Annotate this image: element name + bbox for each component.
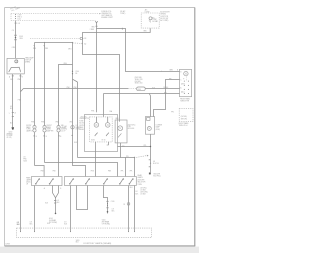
- svg-text:TURN: TURN: [26, 129, 30, 131]
- svg-text:B: B: [22, 76, 23, 78]
- svg-text:PNK: PNK: [45, 48, 48, 50]
- svg-text:PNK: PNK: [53, 171, 56, 173]
- svg-text:0.8: 0.8: [10, 106, 12, 108]
- svg-text:SEE DRL: SEE DRL: [181, 118, 188, 120]
- svg-text:(W/D): (W/D): [181, 83, 185, 85]
- svg-text:BLOCK: BLOCK: [79, 123, 84, 125]
- svg-text:P: P: [183, 78, 184, 80]
- svg-text:PNK: PNK: [74, 87, 77, 89]
- svg-text:BLK 750: BLK 750: [153, 163, 159, 165]
- svg-text:(W/ DRL): (W/ DRL): [140, 187, 147, 189]
- svg-text:PNK: PNK: [41, 171, 44, 173]
- svg-text:C6: C6: [12, 30, 14, 32]
- svg-text:FRONT: FRONT: [79, 125, 84, 127]
- svg-text:0.8 BLK: 0.8 BLK: [140, 194, 145, 196]
- svg-text:PPL: PPL: [169, 79, 172, 81]
- svg-text:BLK: BLK: [74, 142, 77, 144]
- svg-text:(W/ DRL): (W/ DRL): [135, 81, 142, 83]
- svg-text:86 85: 86 85: [91, 139, 95, 141]
- svg-text:S420: S420: [76, 240, 80, 242]
- svg-text:OF I/P): OF I/P): [7, 137, 12, 139]
- svg-text:TURN: TURN: [47, 129, 51, 131]
- svg-text:(SDN) RH: (SDN) RH: [138, 179, 145, 181]
- svg-text:OF TRUNK): OF TRUNK): [102, 224, 111, 226]
- svg-text:COMP: COMP: [152, 19, 157, 21]
- svg-text:0.8: 0.8: [64, 222, 66, 224]
- svg-text:PNK: PNK: [56, 121, 59, 123]
- svg-text:PNK: PNK: [18, 79, 21, 81]
- svg-text:BLK: BLK: [76, 242, 79, 244]
- svg-text:G200: G200: [9, 131, 13, 133]
- svg-text:C2: C2: [156, 21, 158, 23]
- svg-text:MODULE: MODULE: [128, 128, 134, 130]
- svg-text:(SDN): (SDN): [26, 182, 31, 184]
- svg-text:PPL: PPL: [130, 171, 133, 173]
- svg-text:12RW: 12RW: [5, 243, 10, 245]
- svg-text:(W/O DRL): (W/O DRL): [135, 77, 143, 79]
- svg-text:B: B: [177, 70, 178, 72]
- svg-text:CTSY: CTSY: [18, 14, 22, 16]
- svg-text:BLK: BLK: [152, 87, 155, 89]
- svg-text:S206: S206: [23, 160, 27, 162]
- svg-text:C100: C100: [75, 71, 79, 73]
- svg-text:BLK: BLK: [112, 211, 115, 213]
- svg-text:BLOCK (W/: BLOCK (W/: [160, 18, 168, 20]
- svg-text:TURN LP RH: TURN LP RH: [180, 100, 189, 102]
- svg-text:BLK: BLK: [17, 224, 20, 226]
- svg-text:C410: C410: [111, 201, 115, 203]
- svg-text:PNK: PNK: [91, 171, 94, 173]
- svg-text:0.8: 0.8: [30, 222, 32, 224]
- svg-text:BLK: BLK: [57, 202, 60, 204]
- svg-text:(W/ DRL): (W/ DRL): [81, 116, 88, 118]
- svg-text:B: B: [180, 72, 181, 74]
- svg-text:PNK: PNK: [31, 121, 34, 123]
- svg-text:0.8: 0.8: [153, 161, 155, 163]
- svg-text:SWITCH: SWITCH: [25, 59, 31, 61]
- svg-text:LICENSE: LICENSE: [156, 125, 162, 127]
- svg-text:18 BLK 150: 18 BLK 150: [135, 79, 143, 81]
- svg-text:1: 1: [9, 113, 10, 115]
- svg-text:BRN: BRN: [170, 70, 173, 72]
- svg-text:(W/ DRL): (W/ DRL): [181, 116, 188, 118]
- svg-text:G400: G400: [102, 220, 106, 222]
- svg-text:S108: S108: [19, 36, 23, 38]
- svg-text:COURTESY LAMPS (SEDAN): COURTESY LAMPS (SEDAN): [83, 242, 112, 245]
- svg-text:BLK: BLK: [45, 202, 48, 204]
- svg-text:87 30: 87 30: [102, 139, 106, 141]
- svg-text:0.8: 0.8: [57, 200, 59, 202]
- svg-text:BLK: BLK: [47, 223, 50, 225]
- svg-text:B: B: [60, 188, 61, 190]
- svg-text:B: B: [36, 136, 37, 138]
- svg-text:G104: G104: [49, 218, 53, 220]
- svg-text:0.8: 0.8: [112, 209, 114, 211]
- svg-text:FUSE: FUSE: [79, 120, 83, 122]
- svg-text:(W/O DRL): (W/O DRL): [128, 125, 136, 127]
- svg-text:DRL: DRL: [128, 126, 131, 128]
- svg-text:C4: C4: [123, 204, 125, 206]
- svg-text:LH: LH: [26, 184, 28, 186]
- svg-text:OF TRUNK): OF TRUNK): [49, 222, 58, 224]
- svg-text:PPL: PPL: [126, 156, 129, 158]
- svg-text:UNDERHOOD: UNDERHOOD: [79, 118, 90, 120]
- svg-text:0.8 BLK: 0.8 BLK: [140, 189, 145, 191]
- svg-text:B6: B6: [75, 73, 77, 75]
- svg-text:JUNCTION: JUNCTION: [160, 16, 168, 18]
- svg-text:DIODE: DIODE: [145, 11, 150, 13]
- svg-text:B: B: [60, 136, 61, 138]
- svg-text:COMP): COMP): [120, 13, 126, 15]
- svg-text:FSE 4: FSE 4: [18, 16, 22, 18]
- svg-text:PNK: PNK: [108, 171, 111, 173]
- svg-text:PNK: PNK: [23, 159, 26, 161]
- svg-text:KICK PNL): KICK PNL): [153, 176, 161, 178]
- svg-text:TURN: TURN: [138, 184, 142, 186]
- svg-text:BLK: BLK: [135, 193, 138, 195]
- svg-text:PPL: PPL: [144, 145, 147, 147]
- svg-text:0.8: 0.8: [23, 157, 25, 159]
- svg-text:0.8: 0.8: [17, 222, 19, 224]
- svg-text:TURN LP LH: TURN LP LH: [179, 125, 188, 127]
- svg-text:BLK: BLK: [164, 92, 167, 94]
- svg-text:0.8: 0.8: [135, 191, 137, 193]
- svg-text:UNDERHOOD,: UNDERHOOD,: [101, 13, 112, 15]
- svg-text:LH SIDE: LH SIDE: [7, 135, 13, 137]
- svg-text:B3: B3: [84, 38, 86, 40]
- svg-text:FUSE BLOCK-: FUSE BLOCK-: [101, 11, 112, 13]
- svg-text:PNK: PNK: [67, 87, 70, 89]
- svg-text:(SDN): (SDN): [156, 129, 161, 131]
- svg-text:FRONT: FRONT: [26, 125, 31, 127]
- svg-text:PPL: PPL: [171, 111, 174, 113]
- svg-text:PPL: PPL: [121, 171, 124, 173]
- svg-text:PNK: PNK: [41, 121, 44, 123]
- svg-text:G302 (RH: G302 (RH: [153, 173, 160, 175]
- svg-text:(W/O DRL): (W/O DRL): [140, 192, 148, 194]
- svg-text:FRONT: FRONT: [47, 125, 52, 127]
- svg-text:BLK: BLK: [64, 224, 67, 226]
- svg-text:BLK: BLK: [10, 79, 13, 81]
- svg-text:PNK: PNK: [91, 111, 94, 113]
- svg-text:18 BLK 250: 18 BLK 250: [135, 83, 143, 85]
- svg-text:WIRING: WIRING: [160, 14, 166, 16]
- svg-text:BLK: BLK: [30, 224, 33, 226]
- svg-text:0.8: 0.8: [18, 23, 20, 25]
- svg-text:LIC LP: LIC LP: [61, 130, 66, 132]
- svg-text:ENGINE COMPT: ENGINE COMPT: [101, 17, 113, 19]
- svg-text:BLK: BLK: [130, 187, 133, 189]
- svg-text:B: B: [46, 136, 47, 138]
- svg-text:S240: S240: [137, 89, 141, 91]
